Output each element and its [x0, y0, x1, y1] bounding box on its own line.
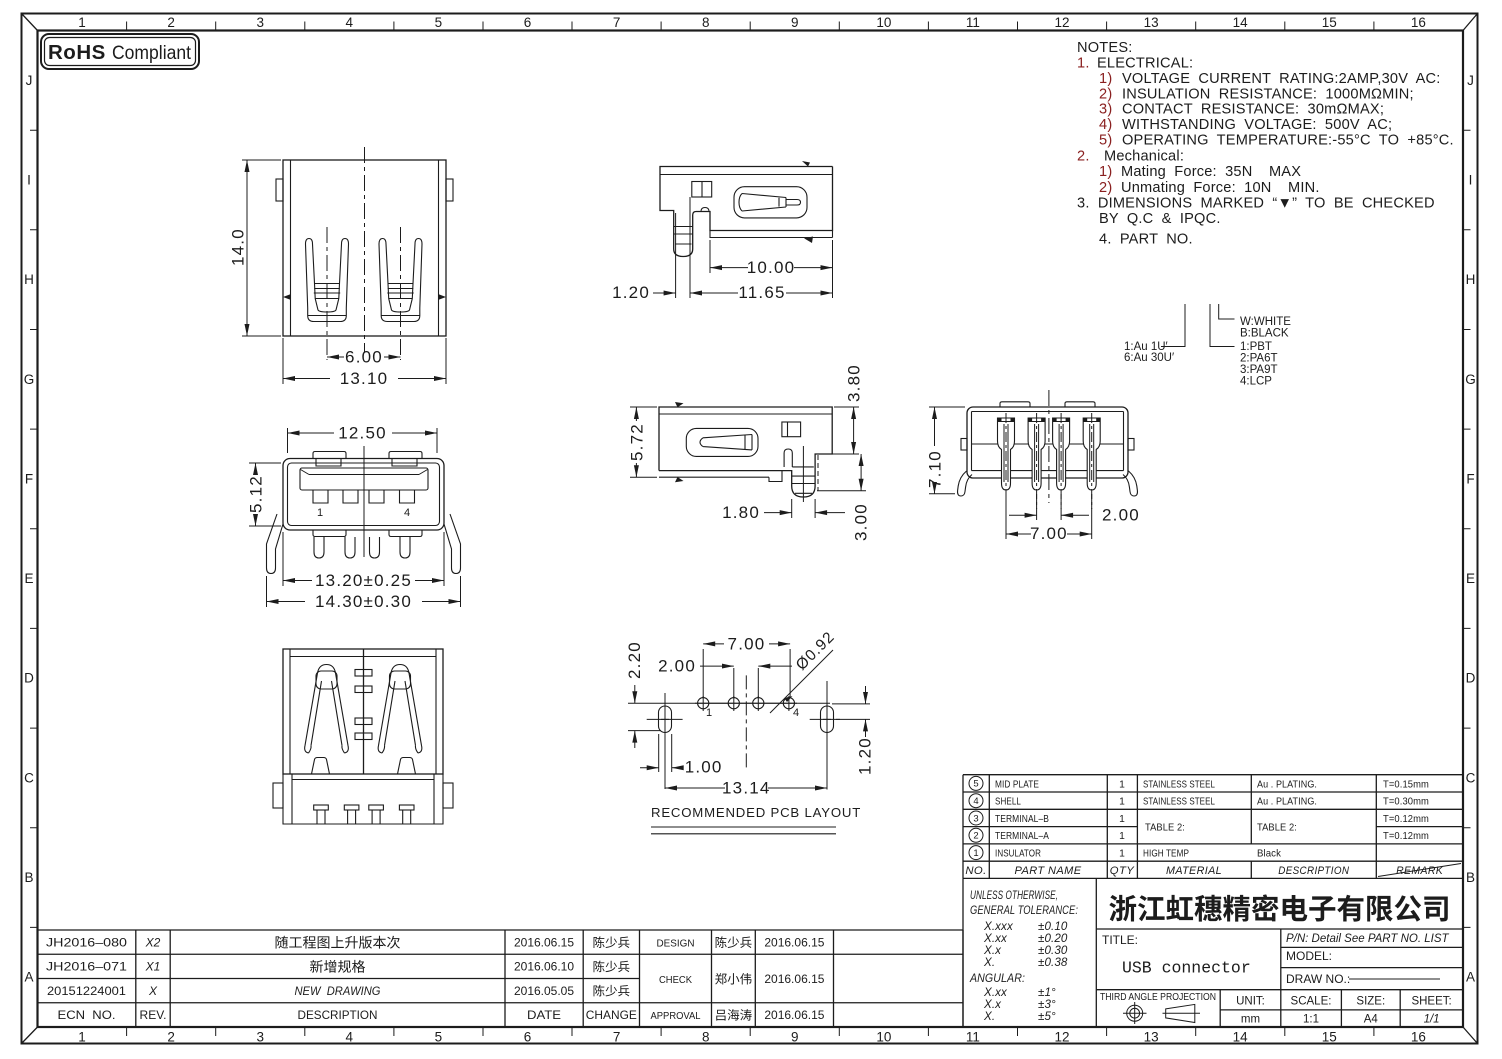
svg-text:14.0: 14.0 — [229, 228, 248, 266]
svg-text:TERMINAL–B: TERMINAL–B — [995, 814, 1049, 825]
svg-text:14: 14 — [1233, 15, 1249, 30]
svg-text:Compliant: Compliant — [112, 42, 192, 64]
svg-text:15: 15 — [1322, 1030, 1337, 1045]
svg-text:12: 12 — [1054, 15, 1069, 30]
svg-text:2:PA6T: 2:PA6T — [1240, 353, 1278, 365]
svg-text:2): 2) — [1099, 86, 1112, 102]
svg-text:5: 5 — [435, 1030, 443, 1045]
svg-text:2016.06.15: 2016.06.15 — [764, 972, 824, 986]
svg-text:7: 7 — [613, 15, 621, 30]
svg-text:3: 3 — [973, 813, 978, 824]
svg-text:13.10: 13.10 — [340, 369, 389, 388]
svg-text:1: 1 — [1119, 831, 1125, 842]
svg-text:2016.05.05: 2016.05.05 — [514, 984, 574, 998]
svg-text:1.: 1. — [1077, 56, 1090, 72]
svg-text:Au . PLATING.: Au . PLATING. — [1257, 779, 1317, 790]
svg-text:D: D — [1466, 671, 1476, 686]
svg-text:NO.: NO. — [965, 865, 986, 877]
svg-text:1: 1 — [973, 848, 978, 859]
svg-text:10: 10 — [876, 1030, 891, 1045]
svg-text:HIGH TEMP: HIGH TEMP — [1143, 849, 1189, 860]
svg-text:8: 8 — [702, 1030, 710, 1045]
svg-text:D: D — [24, 671, 34, 686]
svg-text:P/N: Detail See PART NO. LIST: P/N: Detail See PART NO. LIST — [1286, 933, 1450, 945]
svg-text:STAINLESS STEEL: STAINLESS STEEL — [1143, 779, 1215, 790]
svg-text:1.80: 1.80 — [722, 503, 760, 522]
svg-text:J: J — [26, 73, 33, 88]
svg-text:6:Au 30U′: 6:Au 30U′ — [1124, 352, 1174, 364]
svg-text:±5°: ±5° — [1038, 1010, 1056, 1023]
svg-text:7: 7 — [613, 1030, 621, 1045]
svg-text:ELECTRICAL:: ELECTRICAL: — [1097, 56, 1193, 72]
svg-text:5: 5 — [973, 779, 978, 790]
svg-text:1: 1 — [317, 507, 323, 519]
svg-text:3: 3 — [256, 15, 264, 30]
svg-text:REV.: REV. — [140, 1008, 167, 1022]
svg-text:5.12: 5.12 — [247, 475, 266, 513]
svg-text:1.20: 1.20 — [856, 737, 875, 775]
svg-text:H: H — [1466, 272, 1476, 287]
svg-text:DESIGN: DESIGN — [657, 938, 695, 950]
svg-text:A: A — [1466, 970, 1475, 985]
svg-text:1:PBT: 1:PBT — [1240, 341, 1272, 353]
svg-text:UNLESS OTHERWISE,: UNLESS OTHERWISE, — [970, 889, 1058, 902]
svg-text:1:1: 1:1 — [1303, 1014, 1319, 1026]
svg-text:11: 11 — [966, 1030, 980, 1045]
svg-text:2016.06.15: 2016.06.15 — [514, 936, 574, 950]
svg-text:16: 16 — [1411, 1030, 1426, 1045]
svg-text:X2: X2 — [145, 936, 161, 950]
svg-text:J: J — [1467, 73, 1474, 88]
svg-text:W:WHITE: W:WHITE — [1240, 316, 1291, 328]
svg-text:2.: 2. — [1077, 149, 1090, 165]
svg-text:RECOMMENDED PCB LAYOUT: RECOMMENDED PCB LAYOUT — [651, 805, 861, 820]
svg-text:2.00: 2.00 — [658, 657, 696, 676]
svg-text:CHANGE: CHANGE — [586, 1008, 637, 1022]
svg-text:A: A — [24, 970, 33, 985]
svg-text:3.00: 3.00 — [852, 503, 871, 541]
svg-text:3:PA9T: 3:PA9T — [1240, 364, 1278, 376]
svg-text:T=0.12mm: T=0.12mm — [1383, 831, 1429, 842]
svg-text:6: 6 — [524, 1030, 532, 1045]
svg-text:I: I — [1469, 173, 1473, 188]
svg-text:7.00: 7.00 — [1030, 524, 1068, 543]
svg-text:12.50: 12.50 — [338, 424, 387, 443]
svg-text:1: 1 — [1119, 849, 1125, 860]
svg-text:1: 1 — [1119, 797, 1125, 808]
svg-text:NEW DRAWING: NEW DRAWING — [295, 984, 381, 998]
svg-text:9: 9 — [791, 1030, 799, 1045]
svg-text:C: C — [1466, 770, 1476, 785]
svg-text:JH2016–080: JH2016–080 — [46, 936, 127, 950]
svg-text:1: 1 — [1119, 779, 1125, 790]
svg-text:REMARK: REMARK — [1396, 865, 1443, 877]
svg-text:Unmating Force: 10N MIN.: Unmating Force: 10N MIN. — [1121, 180, 1320, 196]
svg-text:UNIT:: UNIT: — [1236, 996, 1265, 1008]
svg-text:1: 1 — [78, 15, 86, 30]
svg-text:X.: X. — [983, 956, 995, 969]
svg-text:SHELL: SHELL — [995, 797, 1021, 808]
svg-text:mm: mm — [1241, 1014, 1260, 1026]
svg-text:2016.06.15: 2016.06.15 — [764, 936, 824, 950]
svg-text:APPROVAL: APPROVAL — [651, 1010, 701, 1022]
svg-text:RoHS: RoHS — [48, 41, 106, 64]
svg-text:Au . PLATING.: Au . PLATING. — [1257, 797, 1317, 808]
svg-text:4. PART NO.: 4. PART NO. — [1099, 232, 1193, 248]
svg-text:A4: A4 — [1364, 1014, 1379, 1026]
svg-text:TABLE 2:: TABLE 2: — [1145, 823, 1185, 834]
svg-text:B: B — [1466, 870, 1475, 885]
svg-text:THIRD ANGLE PROJECTION: THIRD ANGLE PROJECTION — [1100, 992, 1216, 1003]
svg-text:QTY: QTY — [1110, 865, 1135, 877]
svg-text:G: G — [1465, 372, 1476, 387]
svg-text:3.80: 3.80 — [845, 364, 864, 402]
svg-text:1: 1 — [706, 707, 712, 719]
svg-text:B: B — [24, 870, 33, 885]
svg-text:F: F — [1466, 471, 1474, 486]
svg-text:OPERATING TEMPERATURE:-55°C TO: OPERATING TEMPERATURE:-55°C TO +85°C. — [1122, 133, 1454, 149]
svg-text:DATE: DATE — [527, 1008, 561, 1022]
svg-text:G: G — [24, 372, 35, 387]
svg-text:X: X — [148, 984, 158, 998]
svg-text:11: 11 — [966, 15, 980, 30]
svg-text:1): 1) — [1099, 71, 1112, 87]
svg-text:5.72: 5.72 — [627, 423, 646, 461]
svg-text:TABLE 2:: TABLE 2: — [1257, 823, 1297, 834]
svg-text:20151224001: 20151224001 — [47, 984, 126, 998]
svg-text:Black: Black — [1257, 849, 1282, 860]
svg-text:2.20: 2.20 — [625, 641, 644, 679]
svg-text:1: 1 — [1119, 814, 1125, 825]
svg-text:5): 5) — [1099, 133, 1112, 149]
svg-text:USB connector: USB connector — [1122, 959, 1251, 978]
svg-text:E: E — [24, 571, 33, 586]
svg-text:2016.06.10: 2016.06.10 — [514, 960, 574, 974]
svg-text:13.20±0.25: 13.20±0.25 — [315, 571, 412, 590]
svg-text:TERMINAL–A: TERMINAL–A — [995, 831, 1049, 842]
svg-text:MODEL:: MODEL: — [1286, 949, 1332, 963]
svg-text:2: 2 — [167, 1030, 175, 1045]
svg-text:1.00: 1.00 — [685, 758, 723, 777]
svg-text:C: C — [24, 770, 34, 785]
svg-text:7.00: 7.00 — [728, 634, 766, 653]
svg-text:Mating Force: 35N MAX: Mating Force: 35N MAX — [1121, 164, 1301, 180]
svg-text:1: 1 — [78, 1030, 86, 1045]
svg-text:X.: X. — [983, 1010, 995, 1023]
svg-text:DESCRIPTION: DESCRIPTION — [298, 1008, 378, 1022]
svg-text:E: E — [1466, 571, 1475, 586]
svg-text:T=0.15mm: T=0.15mm — [1383, 779, 1429, 790]
svg-text:TITLE:: TITLE: — [1102, 933, 1138, 947]
svg-text:I: I — [27, 173, 31, 188]
svg-text:2016.06.15: 2016.06.15 — [764, 1008, 824, 1022]
svg-text:7.10: 7.10 — [926, 450, 945, 488]
svg-text:6.00: 6.00 — [345, 348, 383, 367]
svg-text:INSULATION RESISTANCE: 1000MΩM: INSULATION RESISTANCE: 1000MΩMIN; — [1122, 86, 1414, 102]
svg-text:1.20: 1.20 — [612, 283, 650, 302]
svg-text:14: 14 — [1233, 1030, 1249, 1045]
svg-text:ANGULAR:: ANGULAR: — [969, 972, 1025, 985]
svg-text:INSULATOR: INSULATOR — [995, 849, 1041, 860]
svg-text:DRAW NO.:: DRAW NO.: — [1286, 972, 1350, 986]
svg-text:SHEET:: SHEET: — [1411, 996, 1451, 1008]
svg-text:13.14: 13.14 — [722, 778, 771, 797]
svg-text:ECN NO.: ECN NO. — [58, 1008, 116, 1022]
svg-text:B:BLACK: B:BLACK — [1240, 328, 1289, 340]
svg-text:2: 2 — [167, 15, 175, 30]
svg-text:GENERAL TOLERANCE:: GENERAL TOLERANCE: — [970, 904, 1078, 917]
svg-text:NOTES:: NOTES: — [1077, 40, 1133, 56]
svg-text:4: 4 — [404, 507, 410, 519]
svg-text:5: 5 — [435, 15, 443, 30]
svg-text:WITHSTANDING VOLTAGE: 500V AC;: WITHSTANDING VOLTAGE: 500V AC; — [1122, 117, 1392, 133]
svg-text:H: H — [24, 272, 34, 287]
svg-text:1/1: 1/1 — [1424, 1014, 1440, 1026]
svg-text:PART NAME: PART NAME — [1015, 865, 1082, 877]
svg-text:4): 4) — [1099, 117, 1112, 133]
svg-text:CONTACT RESISTANCE: 30mΩMAX;: CONTACT RESISTANCE: 30mΩMAX; — [1122, 102, 1384, 118]
svg-text:6: 6 — [524, 15, 532, 30]
svg-text:BY Q.C & IPQC.: BY Q.C & IPQC. — [1099, 211, 1221, 227]
svg-text:VOLTAGE CURRENT RATING:2AMP,30: VOLTAGE CURRENT RATING:2AMP,30V AC: — [1122, 71, 1441, 87]
svg-text:3. DIMENSIONS MARKED “▼” TO BE: 3. DIMENSIONS MARKED “▼” TO BE CHECKED — [1077, 196, 1435, 212]
svg-text:CHECK: CHECK — [659, 974, 692, 986]
svg-text:16: 16 — [1411, 15, 1426, 30]
svg-text:4: 4 — [346, 1030, 354, 1045]
svg-text:13: 13 — [1144, 1030, 1159, 1045]
svg-text:MID PLATE: MID PLATE — [995, 779, 1039, 790]
svg-text:4: 4 — [973, 796, 978, 807]
svg-text:T=0.12mm: T=0.12mm — [1383, 814, 1429, 825]
svg-text:STAINLESS STEEL: STAINLESS STEEL — [1143, 797, 1215, 808]
svg-text:3): 3) — [1099, 102, 1112, 118]
svg-text:4: 4 — [793, 707, 799, 719]
svg-text:12: 12 — [1054, 1030, 1069, 1045]
svg-text:JH2016–071: JH2016–071 — [46, 960, 127, 974]
svg-text:DESCRIPTION: DESCRIPTION — [1278, 865, 1349, 877]
svg-text:15: 15 — [1322, 15, 1337, 30]
svg-text:F: F — [25, 471, 33, 486]
svg-text:MATERIAL: MATERIAL — [1166, 865, 1222, 877]
svg-text:2: 2 — [973, 831, 978, 842]
svg-text:4: 4 — [346, 15, 354, 30]
svg-text:1): 1) — [1099, 164, 1112, 180]
svg-text:3: 3 — [256, 1030, 264, 1045]
svg-text:11.65: 11.65 — [738, 283, 785, 302]
svg-text:8: 8 — [702, 15, 710, 30]
svg-text:SCALE:: SCALE: — [1291, 996, 1332, 1008]
svg-text:10.00: 10.00 — [747, 258, 796, 277]
svg-text:2): 2) — [1099, 180, 1112, 196]
svg-text:±0.38: ±0.38 — [1038, 956, 1068, 969]
svg-text:13: 13 — [1144, 15, 1159, 30]
svg-text:4:LCP: 4:LCP — [1240, 376, 1272, 388]
svg-text:SIZE:: SIZE: — [1356, 996, 1385, 1008]
svg-text:X1: X1 — [145, 960, 161, 974]
svg-text:2.00: 2.00 — [1102, 506, 1140, 525]
svg-text:Mechanical:: Mechanical: — [1104, 149, 1184, 165]
svg-text:14.30±0.30: 14.30±0.30 — [315, 592, 412, 611]
svg-text:10: 10 — [876, 15, 891, 30]
svg-text:T=0.30mm: T=0.30mm — [1383, 797, 1429, 808]
svg-text:9: 9 — [791, 15, 799, 30]
